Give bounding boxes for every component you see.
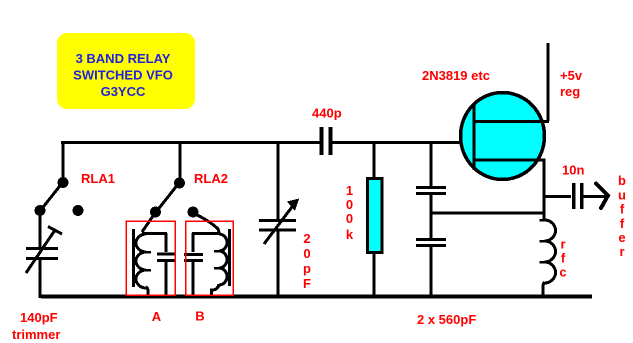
svg-text:RLA1: RLA1 (81, 171, 115, 186)
svg-text:f: f (561, 251, 566, 266)
svg-text:f: f (620, 216, 625, 231)
svg-text:RLA2: RLA2 (194, 171, 228, 186)
svg-text:2N3819 etc: 2N3819 etc (422, 68, 490, 83)
svg-text:r: r (619, 244, 624, 259)
svg-text:u: u (618, 188, 626, 203)
svg-text:140pF: 140pF (20, 310, 58, 325)
svg-text:SWITCHED VFO: SWITCHED VFO (73, 68, 173, 83)
svg-text:B: B (195, 309, 204, 324)
svg-text:f: f (620, 202, 625, 217)
svg-text:3 BAND RELAY: 3 BAND RELAY (76, 51, 171, 66)
svg-text:reg: reg (560, 84, 580, 99)
svg-text:+5v: +5v (560, 68, 583, 83)
svg-text:2 x 560pF: 2 x 560pF (417, 312, 476, 327)
svg-text:trimmer: trimmer (12, 327, 60, 342)
svg-text:1: 1 (346, 183, 353, 198)
svg-text:r: r (560, 237, 565, 252)
svg-text:440p: 440p (312, 106, 342, 121)
svg-text:A: A (152, 309, 162, 324)
svg-text:G3YCC: G3YCC (101, 84, 146, 99)
svg-text:0: 0 (346, 211, 353, 226)
svg-text:k: k (346, 227, 354, 242)
svg-text:10n: 10n (562, 163, 584, 178)
svg-text:b: b (618, 173, 626, 188)
svg-text:c: c (559, 265, 566, 280)
svg-text:F: F (303, 276, 311, 291)
svg-text:0: 0 (346, 197, 353, 212)
svg-text:e: e (618, 230, 625, 245)
svg-text:0: 0 (303, 246, 310, 261)
svg-text:2: 2 (303, 231, 310, 246)
svg-text:p: p (303, 261, 311, 276)
